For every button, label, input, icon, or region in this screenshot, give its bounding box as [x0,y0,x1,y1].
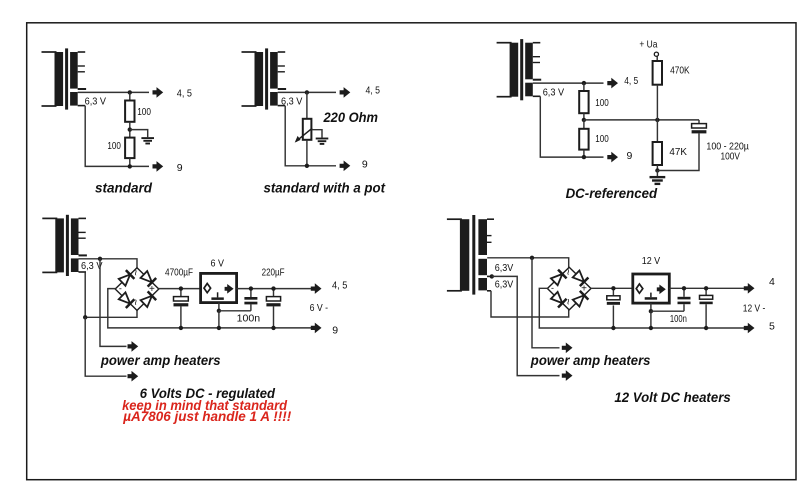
wire R3 to center node [583,113,585,120]
output arrow pin 5 [744,323,755,334]
svg-text:220µF: 220µF [262,267,285,279]
svg-text:6,3 V: 6,3 V [85,96,106,108]
wire T4 6,3V winding to bridge AC top [79,259,138,268]
wire U2 common pin [650,303,652,311]
svg-text:6,3V: 6,3V [495,278,514,290]
wire center tap to ground [130,130,148,138]
wire T3 bottom lead to node 9 [540,96,603,157]
wire R5 to divider node [656,85,658,120]
svg-text:standard: standard [95,181,153,196]
ground symbol (circuit 3) [650,171,666,184]
junction dot node 9 [128,164,132,168]
potentiometer P1 220 Ohm [295,119,313,143]
junction dot center [582,118,586,122]
junction dots C4 [271,286,275,330]
junction dots C5 [611,286,615,330]
voltage regulator U2 [633,274,670,303]
wire R1 to R2 [129,122,131,138]
resistor R4 100 [579,120,588,157]
wire heater tap A to arrow [100,259,127,347]
svg-text:standard with a pot: standard with a pot [264,181,386,196]
transformer T3 [497,39,542,100]
output arrow pin 4 [744,283,755,294]
capacitor C2 4700µF [174,289,189,328]
voltage regulator U1 [201,273,237,302]
resistor R3 100 [579,83,588,113]
svg-text:6 V -: 6 V - [310,302,329,314]
resistor R2 100 [125,138,134,167]
svg-text:4, 5: 4, 5 [177,88,192,100]
ground symbol (circuit 1) [141,138,154,143]
svg-text:6 V: 6 V [211,257,225,269]
heater arrow 2 [562,370,573,381]
wire T1 bottom lead to node 9 [85,106,149,167]
output arrow pins 4,5 [340,87,351,98]
wire T1 6,3V winding to node 4,5 [78,91,149,93]
svg-text:4, 5: 4, 5 [366,85,381,97]
wire T2 6,3V winding to node 4,5 [278,91,336,93]
wire Ua to R5 [656,57,658,62]
junction dot divider [655,118,659,122]
svg-text:47K: 47K [669,146,687,158]
wire bridge minus to 0V rail [108,289,312,328]
heater arrow 1 [562,343,573,354]
junction dot ground node [655,168,659,172]
transformer T2 [242,48,287,109]
capacitor C5 electrolytic [607,288,620,328]
wire common to 0V rail [218,311,220,328]
capacitor C7 electrolytic [700,288,713,328]
svg-text:100V: 100V [721,151,741,163]
svg-text:470K: 470K [670,65,690,77]
wire U2 output to pin 4 [669,287,747,289]
junction dot node 4,5 [128,90,132,94]
svg-text:4700µF: 4700µF [165,266,193,278]
output arrow pin 9 [153,161,164,172]
junction dot heater tap A [530,256,534,260]
wire pot bottom to node 9 [306,140,308,166]
wire common to 0V rail [650,311,652,328]
svg-text:DC-referenced: DC-referenced [566,186,658,201]
wire center node to divider [584,119,699,121]
wire bridge plus to regulator input [158,288,200,290]
wire middle tap to heater arrow [492,276,560,375]
svg-text:power amp heaters: power amp heaters [100,353,221,368]
svg-text:100: 100 [595,97,609,109]
transformer T1 [42,48,87,109]
output arrow pin 9 [607,152,618,163]
svg-text:100: 100 [595,133,609,145]
capacitor C4 220µF [266,289,280,328]
junction dot node 9 [305,164,309,168]
junction dot common 0V [217,326,221,330]
junction dots C2 [179,286,183,330]
junction dots C7 [704,286,708,330]
wire pot wiper to ground [312,130,322,138]
svg-text:100: 100 [107,140,121,152]
wire common to C6 [651,310,684,312]
junction dot common [649,309,653,313]
junction dot common [217,309,221,313]
output arrow pins 4,5 [607,78,618,89]
junction dot node 4,5 [582,81,586,85]
wire T3 6,3V winding to node 4,5 [533,82,604,84]
bridge rectifier BR2 [547,267,591,310]
svg-text:µA7806 just handle 1 A !!!!: µA7806 just handle 1 A !!!! [122,409,291,424]
terminal +Ua [654,52,658,56]
junction dot node 4,5 [305,90,309,94]
junction dot heater tap B [83,315,87,319]
ground symbol (circuit 2) [316,139,329,144]
svg-text:6,3 V: 6,3 V [281,96,302,108]
wire T5 winding 1 to bridge AC top [487,258,569,268]
svg-text:power amp heaters: power amp heaters [530,353,651,368]
heater arrow 1 [128,341,139,352]
heater arrow 2 [128,371,139,382]
wire bridge minus to 0V rail [539,288,747,328]
wire T2 bottom lead to node 9 [285,106,336,166]
junction dot common 0V [649,326,653,330]
svg-text:6,3V: 6,3V [495,262,514,274]
output arrow pin 9 [311,323,322,334]
wire heater tap A to arrow [532,258,560,348]
svg-text:5: 5 [769,321,775,333]
junction dot node 9 [582,155,586,159]
capacitor C3 100n [244,289,257,311]
svg-text:100n: 100n [670,313,687,325]
bridge rectifier BR1 [115,268,159,311]
capacitor C1 electrolytic [657,120,706,171]
svg-text:12 V -: 12 V - [743,302,766,314]
capacitor C6 100n [678,288,691,311]
svg-text:12 V: 12 V [642,255,661,267]
junction dot C6 top [682,286,686,290]
wire T4 bottom lead to bridge AC bottom [85,272,137,317]
svg-text:9: 9 [332,325,338,337]
resistor R6 47K [653,120,662,165]
wire heater tap B to arrow [85,317,126,376]
svg-text:4: 4 [769,276,775,288]
svg-text:6,3 V: 6,3 V [543,86,564,98]
junction dot middle tap [490,274,494,278]
output arrow pin 9 [340,161,351,172]
svg-text:+ Ua: + Ua [639,38,657,50]
wire U1 output to node 4,5 [236,288,312,290]
svg-text:9: 9 [627,150,633,162]
junction dot C3 top [249,286,253,290]
transformer T4 [42,215,87,276]
junction dot heater tap A [98,257,102,261]
svg-text:4, 5: 4, 5 [332,279,347,291]
wire bridge plus to regulator input [591,287,633,289]
svg-text:9: 9 [362,158,368,170]
wire T5 winding 2 to bridge AC bottom [491,291,569,317]
svg-text:4, 5: 4, 5 [624,75,638,87]
svg-text:220 Ohm: 220 Ohm [323,110,378,125]
wire common to C3 [219,310,251,312]
output arrow pins 4,5 [311,283,322,294]
junction dot center tap [128,127,132,131]
transformer T5 (two 6,3V windings) [447,215,494,295]
svg-text:100: 100 [137,106,151,118]
resistor R1 100 [125,92,134,121]
output arrow pins 4,5 [153,87,164,98]
wire U1 common pin [218,303,220,311]
svg-text:12 Volt DC heaters: 12 Volt DC heaters [614,390,731,405]
wire R6 to ground node [656,165,658,171]
resistor R5 470K [653,61,662,85]
svg-text:9: 9 [177,162,183,174]
wire node to pot top [306,92,308,118]
svg-text:100n: 100n [237,312,261,324]
